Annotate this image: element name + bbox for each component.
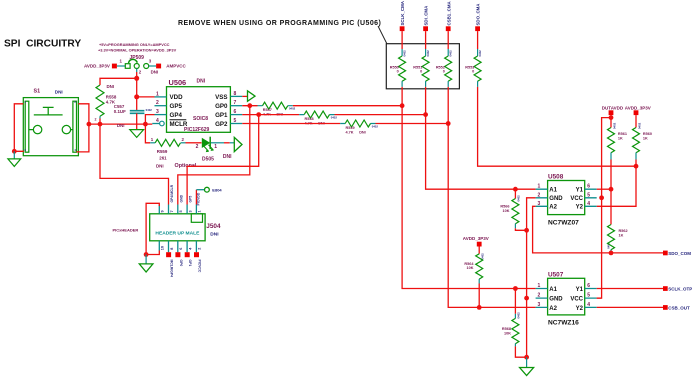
svg-text:0402: 0402 [289,107,296,111]
wire U508 GND to ground rail [527,198,536,357]
no-connect triangle VSS [248,91,256,101]
resistor R548 4.7K [304,111,329,118]
svg-text:DNI: DNI [107,84,115,89]
switch S1 [23,98,78,156]
svg-text:DNI: DNI [151,70,159,75]
svg-text:AMPVCC: AMPVCC [166,64,186,69]
wire JP509 pin2 down [136,69,138,72]
junction ground node [524,355,529,360]
svg-text:SDO_COM: SDO_COM [668,251,691,256]
svg-text:10: 10 [161,246,165,250]
svg-text:Y2: Y2 [576,205,584,211]
svg-text:R559: R559 [157,149,168,154]
J504 bottom pin numbers [161,246,202,250]
svg-text:Y1: Y1 [576,188,584,194]
svg-text:E804: E804 [212,188,222,193]
svg-text:SCLK_OTP: SCLK_OTP [668,287,692,292]
svg-text:AVDD_3P3V: AVDD_3P3V [625,106,651,111]
wire CSB column [448,87,535,308]
svg-text:0402: 0402 [146,108,153,112]
wire U507 Y1 to port [597,288,663,290]
no-connect circle E804 [205,187,210,192]
wire to VDD pin [137,96,155,98]
svg-text:0: 0 [397,70,399,74]
resistor R549 4.7K [345,120,370,127]
junction VDD/C557 [134,94,139,99]
svg-text:2: 2 [196,144,199,150]
svg-text:R560: R560 [643,132,652,136]
svg-text:3: 3 [538,302,541,308]
svg-text:10K: 10K [504,332,511,336]
svg-text:D505: D505 [202,156,214,162]
junction GP1 [256,112,261,117]
junction R558 bottom [98,122,103,127]
wire SCLK column [402,87,535,289]
junction R562 / SDO_COM line [609,251,614,256]
svg-text:GND: GND [549,296,563,302]
svg-text:AVDD_3P3V: AVDD_3P3V [463,236,489,241]
svg-text:A1: A1 [549,287,557,293]
svg-text:261: 261 [159,156,167,161]
ground [8,159,21,167]
connector J504 HEADER UP MALE [150,214,205,241]
junction dot [12,149,17,154]
svg-text:R551: R551 [413,65,422,69]
svg-text:VSS: VSS [215,94,227,101]
svg-text:NC7WZ16: NC7WZ16 [548,320,579,327]
wire SDI column [426,87,536,189]
svg-text:PICxHEADER: PICxHEADER [113,228,139,233]
junction GP0/SCLK column [400,103,405,108]
svg-text:1: 1 [538,283,541,289]
svg-text:CSB_OUT: CSB_OUT [668,306,690,311]
wire R561 to Y1 [610,160,612,190]
wire S1 left to ground [14,104,23,152]
svg-text:4: 4 [587,302,590,308]
junction U507 GND / ground rail [524,296,529,301]
svg-text:GP1: GP1 [215,112,228,119]
ground stem J504 [145,255,147,264]
svg-text:10K: 10K [467,266,474,270]
MCLR bubble pin 4 [160,121,165,126]
wire J504 pin1 to no-connect [195,190,197,205]
svg-text:7: 7 [170,210,174,212]
svg-text:DNI: DNI [55,90,63,95]
svg-text:1K: 1K [618,137,623,141]
port SCLK_OTP [663,286,668,291]
J504 top pin numbers [161,210,202,212]
svg-text:Y2: Y2 [576,306,584,312]
LED D505 [202,138,210,148]
svg-text:R552: R552 [436,65,445,69]
svg-text:DNI: DNI [117,123,125,128]
junction DUTAVDD [609,115,614,120]
wire DUTAVDD down [610,115,612,119]
svg-text:DNI: DNI [156,163,164,168]
wire U508 A2 to SDO_COM [533,206,663,253]
resistor R568 10K [514,289,516,314]
port AMPVCC [156,64,161,69]
wire S1 right side [77,104,89,152]
J504 bottom net labels [170,260,202,278]
svg-text:2: 2 [95,118,97,122]
callout line to resistor box [378,26,387,44]
svg-text:0: 0 [443,70,445,74]
op IC U508 NC7WZ07 [548,181,585,215]
junction J504 ground [144,252,149,257]
U506 pin stubs right [230,96,242,123]
svg-text:8: 8 [234,91,237,97]
wire MCLR net horizontal [89,123,152,125]
svg-text:R549: R549 [346,126,355,130]
svg-text:+5V=PROGRAMMING ONLY=AMPVCC: +5V=PROGRAMMING ONLY=AMPVCC [99,42,170,47]
svg-text:PICVCC: PICVCC [197,260,201,273]
svg-text:A2: A2 [549,306,557,312]
svg-text:VCC: VCC [570,196,583,202]
svg-text:GP2: GP2 [215,121,228,128]
svg-text:PIC12F629: PIC12F629 [184,127,210,133]
junction GND net / R566 [524,228,529,233]
svg-text:0: 0 [472,70,474,74]
junction U508 A1 / R566 [513,187,518,192]
svg-text:10K: 10K [503,209,510,213]
svg-text:3: 3 [538,201,541,207]
svg-text:DNI: DNI [223,154,232,160]
port CSB_OUT [663,305,668,310]
svg-text:SPI CIRCUITRY: SPI CIRCUITRY [4,39,81,50]
ground J504 [139,264,153,272]
junction U507 A1 / R568 [513,286,518,291]
resistor R553 0 [477,31,479,49]
junction S1 to MCLR net [87,122,92,127]
svg-text:1: 1 [538,184,541,190]
svg-text:GP0: GP0 [179,260,183,267]
svg-text:5: 5 [234,118,237,124]
svg-text:GP5: GP5 [170,103,183,110]
svg-text:GP0: GP0 [215,103,228,110]
wire J504 pin9 to ground branch [146,203,159,254]
ground stem [13,151,15,159]
resistor R547 4.7K [263,102,288,109]
U506 pin numbers [156,91,237,124]
svg-text:U508: U508 [548,174,564,181]
svg-text:GP5: GP5 [189,196,193,203]
wire R560 to SDO_CM node [635,160,637,167]
U506 pin stubs left [152,97,166,124]
svg-text:DNI: DNI [197,79,206,85]
svg-text:J504: J504 [206,223,221,230]
wire D505 to DNI buffer [211,142,224,144]
svg-text:SCLK_CMA: SCLK_CMA [400,0,405,25]
J504 top net labels [170,184,200,205]
svg-text:5: 5 [587,192,590,198]
svg-text:R561: R561 [618,132,627,136]
svg-text:0402: 0402 [481,253,485,260]
svg-text:DNI: DNI [359,130,366,134]
svg-text:6: 6 [234,109,237,115]
svg-text:9: 9 [161,210,165,212]
svg-text:0402: 0402 [426,50,430,57]
svg-text:4: 4 [156,118,159,124]
svg-text:1: 1 [156,91,159,97]
svg-text:R562: R562 [619,229,628,233]
junction GP2/CSB column [446,121,451,126]
port SDO_COM [663,251,668,256]
no-connect triangle after D505 [234,137,242,151]
svg-text:0402: 0402 [517,312,521,319]
svg-text:5: 5 [179,210,183,212]
svg-text:CSB1_CMA: CSB1_CMA [446,1,451,26]
svg-text:A1: A1 [549,188,557,194]
svg-text:0402: 0402 [517,195,521,202]
svg-text:8: 8 [170,248,174,250]
wire GP1 net to J504 pin3 [187,115,259,205]
junction GP0 [247,103,252,108]
svg-text:HEADER UP MALE: HEADER UP MALE [155,231,200,237]
svg-text:6: 6 [587,283,590,289]
svg-text:DUTAVDD: DUTAVDD [602,106,624,111]
svg-text:5: 5 [587,293,590,299]
wire J504 pin10 to ground branch [146,251,159,255]
J504 top pin stubs [159,205,196,214]
svg-text:0402: 0402 [612,122,616,129]
wire GP0 pin 7 [242,105,402,107]
svg-text:NC7WZ07: NC7WZ07 [548,219,579,226]
svg-text:AVDD_3P3V: AVDD_3P3V [84,64,110,69]
svg-text:GP4/MCLR: GP4/MCLR [170,184,174,202]
resistor R550 0 [401,31,403,49]
resistor R559 261 [145,124,150,143]
wire GP0 net to J504 pin5 [178,106,250,205]
svg-text:GP4: GP4 [170,112,183,119]
svg-text:R550: R550 [390,65,399,69]
svg-text:0402: 0402 [331,116,338,120]
ground bottom right [520,368,534,376]
op IC U506 PIC12F629 [167,87,231,133]
box remove-when-programming [386,44,459,89]
J504 bottom pin stubs [159,241,196,252]
svg-text:0402: 0402 [478,50,482,57]
svg-text:S1: S1 [34,88,41,94]
svg-text:3: 3 [188,210,192,212]
svg-text:SDO_CMA: SDO_CMA [476,3,481,26]
svg-text:3: 3 [156,109,159,115]
svg-text:VCC: VCC [570,296,583,302]
svg-text:GND: GND [179,194,183,202]
svg-text:Y1: Y1 [576,287,584,293]
svg-text:U506: U506 [169,78,187,87]
J504 test point squares pins 8 6 4 2 [166,252,171,257]
wire U507 Y2 to port [597,306,663,308]
resistor R552 0 [447,31,449,49]
svg-text:0402: 0402 [637,122,641,129]
wire GP4 branch to MCLR net [145,115,154,125]
svg-text:R547: R547 [263,108,272,112]
svg-text:+3.3V=NORMAL OPERATION=AVDD_3P: +3.3V=NORMAL OPERATION=AVDD_3P3V [98,47,177,52]
svg-text:4.7K: 4.7K [346,130,354,134]
junction GP1/SDI column [423,112,428,117]
svg-text:0.1UF: 0.1UF [114,109,126,114]
wire PICVDD to R558 [100,78,137,85]
svg-text:1: 1 [198,210,202,212]
svg-text:DNI: DNI [210,232,219,238]
svg-text:REMOVE WHEN USING OR PROGRAMMI: REMOVE WHEN USING OR PROGRAMMING PIC (U5… [178,20,381,27]
junction U508 VCC / DUTAVDD rail [599,195,604,200]
svg-text:VDD: VDD [170,94,184,101]
svg-text:0402: 0402 [449,50,453,57]
junction SDO_CM / Y2 / R560 [634,164,639,169]
svg-text:7: 7 [234,100,237,106]
resistor R562 1K [610,189,612,216]
svg-text:GND: GND [549,196,563,202]
wire MCLR net to J504 pin7 [100,124,169,204]
svg-text:SOIC8: SOIC8 [193,116,208,122]
wire U508 Y1 [597,188,611,190]
wire SDO column [478,87,636,166]
svg-text:A2: A2 [549,205,557,211]
svg-text:U507: U507 [548,271,564,278]
svg-text:2: 2 [538,293,541,299]
svg-text:0402: 0402 [403,50,407,57]
junction Y1 / R561 / R562 [609,187,614,192]
svg-text:2: 2 [538,192,541,198]
wire VSS pin 8 [242,95,247,97]
svg-text:GP1: GP1 [188,260,192,267]
junction R559 branch [143,122,148,127]
resistor R551 0 [425,31,427,49]
svg-text:R553: R553 [465,65,474,69]
svg-text:2: 2 [156,100,159,106]
svg-text:MCLR/GP4: MCLR/GP4 [170,260,174,278]
svg-text:1: 1 [214,144,217,150]
ground under C557 [130,130,144,138]
svg-text:1K: 1K [643,137,648,141]
svg-text:4: 4 [587,201,590,207]
wire GP2 pin 5 [242,123,448,125]
svg-text:R568: R568 [502,327,511,331]
ground stem bottom [526,357,528,367]
svg-text:R548: R548 [305,117,314,121]
wire DUTAVDD rail to VCC pins [597,118,611,299]
wire R559 to D505 [186,142,202,144]
wire U507 VCC [597,297,602,299]
svg-text:R564: R564 [464,262,474,266]
svg-text:1K: 1K [619,234,624,238]
svg-text:6: 6 [587,184,590,190]
op IC U507 NC7WZ16 [548,278,585,315]
svg-text:2: 2 [198,248,202,250]
svg-text:0: 0 [420,70,422,74]
wire U508 Y2 up to SDO_CM node [597,166,636,206]
svg-text:SDI_CMA: SDI_CMA [424,5,429,26]
capacitor C557 0.1UF [136,97,138,110]
wire GP1 pin 6 [242,114,425,116]
svg-text:0402: 0402 [372,125,379,129]
svg-text:R566: R566 [500,205,509,209]
junction R564 / CSB line [477,305,482,310]
svg-text:6: 6 [179,248,183,250]
junction PICVDD [134,76,139,81]
